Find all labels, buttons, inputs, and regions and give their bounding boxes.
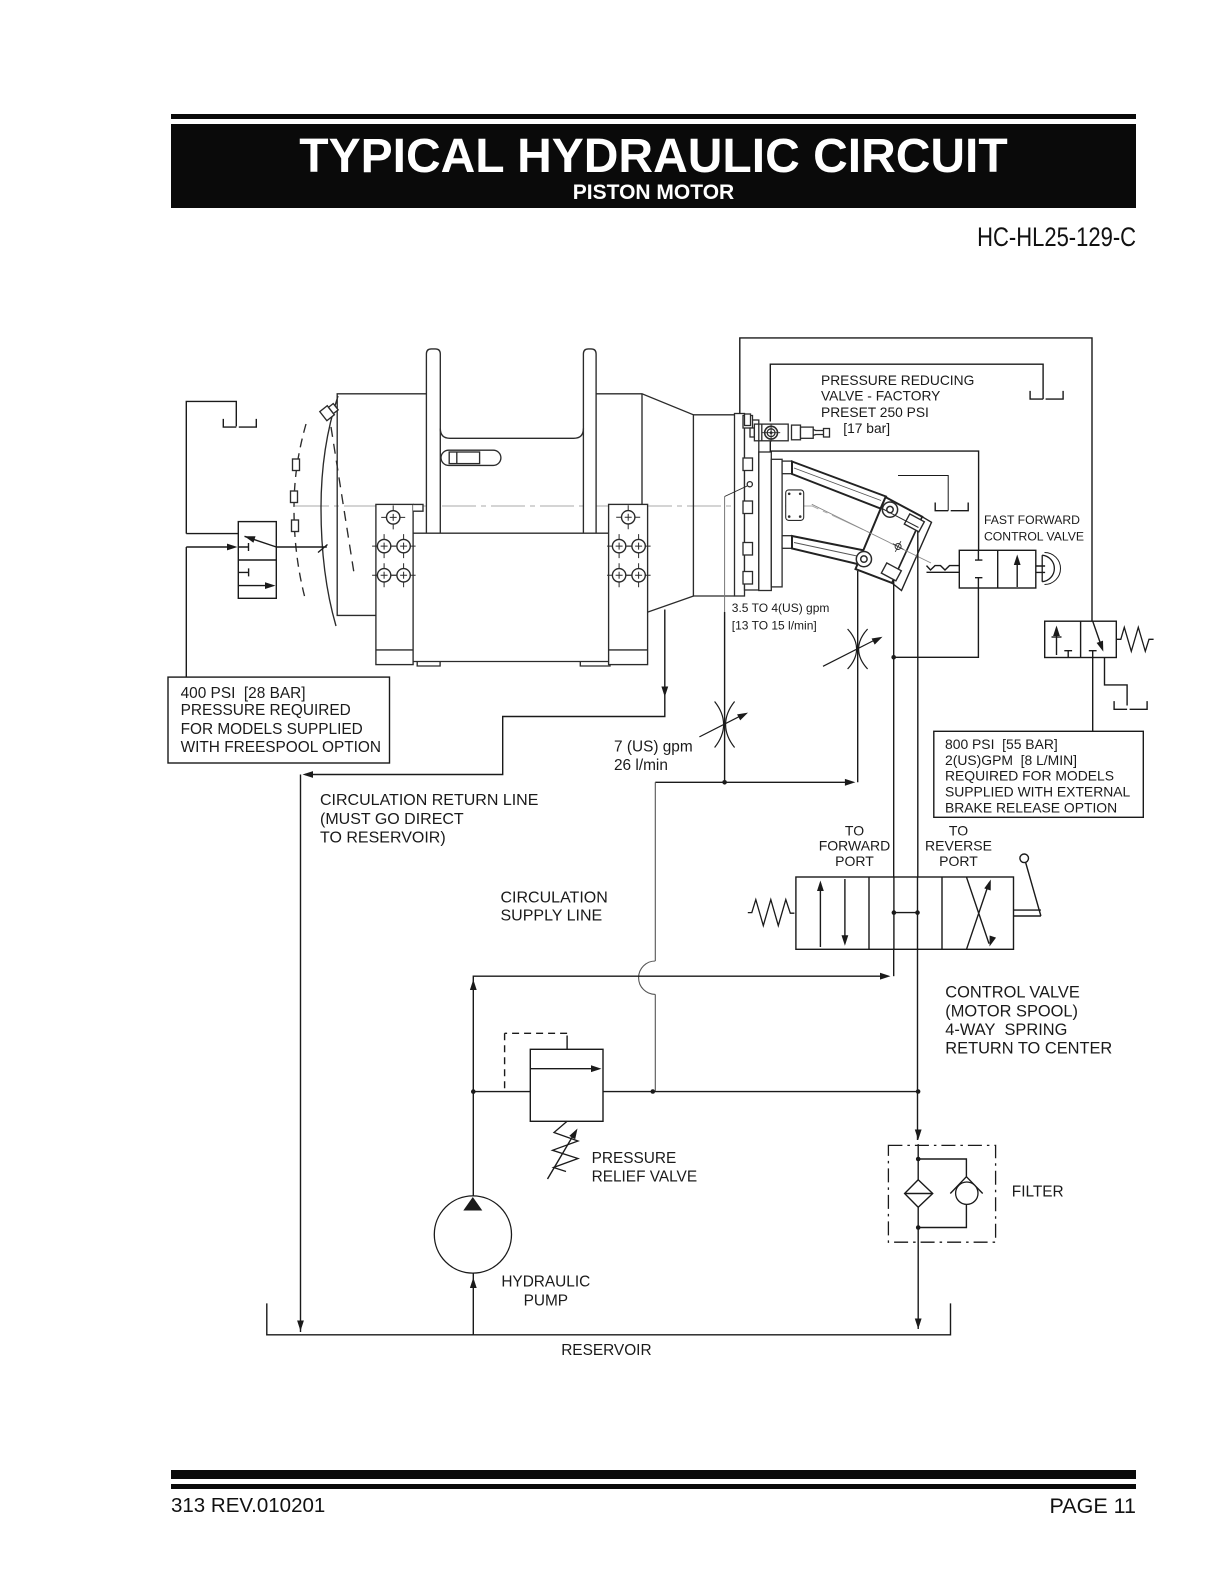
svg-text:TO RESERVOIR): TO RESERVOIR) bbox=[320, 830, 446, 847]
svg-text:RESERVOIR: RESERVOIR bbox=[561, 1342, 651, 1359]
svg-text:4-WAY SPRING: 4-WAY SPRING bbox=[945, 1021, 1067, 1039]
svg-text:HYDRAULIC: HYDRAULIC bbox=[501, 1274, 590, 1291]
svg-text:RELIEF VALVE: RELIEF VALVE bbox=[592, 1168, 698, 1185]
svg-text:PRESET 250 PSI: PRESET 250 PSI bbox=[821, 405, 929, 420]
svg-text:BRAKE RELEASE OPTION: BRAKE RELEASE OPTION bbox=[945, 799, 1117, 815]
svg-text:WITH FREESPOOL OPTION: WITH FREESPOOL OPTION bbox=[181, 739, 381, 756]
svg-text:FAST FORWARD: FAST FORWARD bbox=[984, 513, 1080, 527]
svg-text:26 l/min: 26 l/min bbox=[614, 757, 668, 774]
svg-text:TO: TO bbox=[949, 822, 968, 838]
svg-text:[13 TO 15 l/min]: [13 TO 15 l/min] bbox=[732, 619, 817, 633]
svg-text:800 PSI [55 BAR]: 800 PSI [55 BAR] bbox=[945, 736, 1058, 752]
svg-text:400 PSI [28 BAR]: 400 PSI [28 BAR] bbox=[181, 685, 306, 702]
svg-text:CONTROL VALVE: CONTROL VALVE bbox=[984, 530, 1084, 544]
svg-text:PUMP: PUMP bbox=[524, 1293, 568, 1310]
svg-text:3.5 TO 4(US) gpm: 3.5 TO 4(US) gpm bbox=[732, 601, 830, 615]
svg-text:RETURN TO CENTER: RETURN TO CENTER bbox=[945, 1040, 1112, 1058]
svg-text:(MOTOR SPOOL): (MOTOR SPOOL) bbox=[945, 1002, 1078, 1020]
svg-text:PORT: PORT bbox=[835, 853, 874, 869]
svg-text:2(US)GPM [8 L/MIN]: 2(US)GPM [8 L/MIN] bbox=[945, 752, 1077, 768]
svg-text:REQUIRED FOR MODELS: REQUIRED FOR MODELS bbox=[945, 768, 1114, 784]
svg-text:SUPPLY LINE: SUPPLY LINE bbox=[501, 908, 603, 925]
svg-text:[17 bar]: [17 bar] bbox=[843, 421, 890, 436]
svg-text:FOR MODELS SUPPLIED: FOR MODELS SUPPLIED bbox=[181, 721, 363, 738]
svg-text:REVERSE: REVERSE bbox=[925, 838, 992, 854]
svg-text:PRESSURE REQUIRED: PRESSURE REQUIRED bbox=[181, 702, 351, 719]
svg-text:CIRCULATION: CIRCULATION bbox=[501, 890, 608, 907]
svg-text:SUPPLIED WITH EXTERNAL: SUPPLIED WITH EXTERNAL bbox=[945, 784, 1131, 800]
svg-text:CONTROL VALVE: CONTROL VALVE bbox=[945, 984, 1080, 1002]
svg-text:PORT: PORT bbox=[939, 853, 978, 869]
svg-text:PRESSURE REDUCING: PRESSURE REDUCING bbox=[821, 373, 974, 388]
svg-text:TO: TO bbox=[845, 822, 864, 838]
svg-text:VALVE - FACTORY: VALVE - FACTORY bbox=[821, 389, 940, 404]
svg-text:(MUST GO DIRECT: (MUST GO DIRECT bbox=[320, 811, 464, 828]
svg-text:FILTER: FILTER bbox=[1012, 1184, 1064, 1201]
svg-text:7 (US) gpm: 7 (US) gpm bbox=[614, 739, 693, 756]
svg-text:CIRCULATION RETURN LINE: CIRCULATION RETURN LINE bbox=[320, 792, 538, 809]
svg-text:FORWARD: FORWARD bbox=[819, 838, 891, 854]
svg-text:PRESSURE: PRESSURE bbox=[592, 1150, 677, 1167]
